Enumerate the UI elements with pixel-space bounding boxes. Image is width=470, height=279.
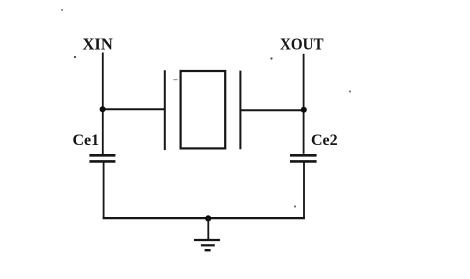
wire right lead horizontal from crystal bbox=[240, 109, 305, 111]
node junction dot right bbox=[301, 107, 307, 113]
capacitor Ce2 top plate bbox=[290, 154, 317, 157]
wire Ce1 to bottom rail bbox=[103, 163, 105, 220]
ground bar 3 bbox=[205, 249, 211, 251]
ground bar 1 bbox=[194, 239, 220, 241]
scan speck top left bbox=[61, 9, 63, 11]
scan speck below XIN bbox=[74, 56, 76, 58]
ground bar 2 bbox=[201, 244, 215, 246]
scan speck left of XOUT bbox=[270, 57, 272, 59]
capacitor Ce2 bottom plate bbox=[290, 160, 317, 163]
scan speck right mid bbox=[349, 91, 351, 93]
node junction dot left bbox=[100, 106, 106, 112]
scan mark near crystal top-left bbox=[174, 79, 178, 80]
wire XIN vertical bbox=[102, 53, 104, 155]
wire left lead horizontal to crystal bbox=[102, 108, 166, 110]
svg-text:Ce1: Ce1 bbox=[73, 132, 100, 149]
capacitor Ce1 top plate bbox=[89, 154, 115, 157]
ground stub wire bbox=[207, 218, 209, 239]
scan speck above bottom rail bbox=[294, 206, 296, 208]
capacitor Ce1 bottom plate bbox=[89, 160, 115, 163]
svg-text:Ce2: Ce2 bbox=[311, 132, 338, 149]
wire Ce2 to bottom rail bbox=[303, 163, 305, 220]
crystal Y1 left plate bbox=[164, 70, 166, 150]
crystal Y1 body rectangle bbox=[181, 71, 226, 148]
node junction dot ground bbox=[205, 215, 211, 221]
svg-text:XOUT: XOUT bbox=[280, 35, 324, 54]
wire bottom ground rail bbox=[103, 217, 305, 219]
svg-text:XIN: XIN bbox=[83, 34, 113, 53]
crystal Y1 right plate bbox=[239, 71, 241, 150]
wire XOUT vertical bbox=[303, 54, 305, 154]
